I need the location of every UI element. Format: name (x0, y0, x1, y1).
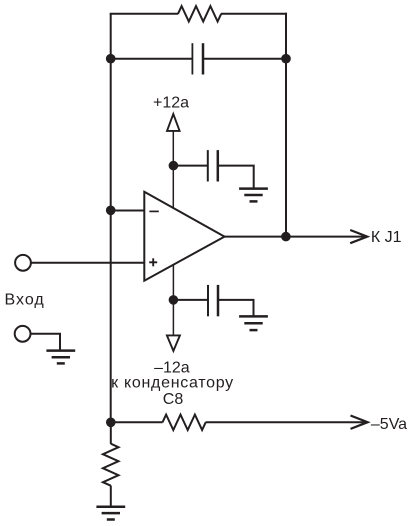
wire R3 to ground (110, 486, 112, 507)
terminal ground circle (15, 326, 31, 342)
arrow to K J1 (350, 230, 367, 243)
arrow to -5Va (351, 416, 368, 429)
ground G2 (239, 316, 268, 330)
wire to R3 (110, 422, 112, 444)
svg-text:С8: С8 (163, 391, 184, 408)
wire capacitor line right (203, 58, 286, 60)
node junction +12a (169, 161, 179, 171)
wire -5Va line right (206, 421, 365, 423)
wire to C2 (173, 165, 207, 167)
terminal input circle (15, 255, 31, 271)
wire top horizontal left segment (110, 13, 179, 15)
node junction -12a (169, 295, 179, 305)
power +12a arrow (167, 114, 180, 131)
svg-text:к конденсатору: к конденсатору (111, 375, 234, 392)
wire right vertical feedback (285, 13, 287, 237)
ground input (46, 351, 75, 364)
resistor R1 feedback (178, 6, 221, 21)
node junction bottom (106, 418, 116, 428)
svg-text:–5Va: –5Va (371, 416, 407, 433)
resistor R3 (103, 444, 119, 486)
node junction right cap (281, 54, 291, 64)
wire capacitor line left (111, 58, 193, 60)
capacitor C3 bypass bottom (207, 285, 209, 316)
svg-text:Вход: Вход (5, 291, 45, 308)
svg-text:К J1: К J1 (371, 229, 402, 246)
power -12a arrow (167, 335, 180, 351)
wire to C3 (173, 299, 208, 301)
wire left vertical bus (110, 14, 112, 423)
wire -12a supply (172, 264, 174, 335)
node junction inverting input (106, 206, 116, 216)
wire C2 to ground (218, 166, 254, 188)
op-amp plus sign (149, 261, 157, 263)
resistor R2 (163, 415, 206, 430)
wire output (224, 236, 365, 238)
wire non-inverting input (31, 262, 144, 264)
capacitor C2 bypass top (207, 150, 209, 181)
wire -5Va line (111, 421, 163, 423)
node junction output (281, 232, 291, 242)
op-amp U1 (144, 192, 224, 281)
node junction left cap (106, 54, 116, 64)
wire C3 to ground (218, 300, 254, 316)
ground G4 (96, 507, 125, 520)
op-amp minus sign (149, 210, 158, 212)
svg-text:+12a: +12a (153, 95, 189, 112)
ground G1 (239, 189, 268, 202)
wire inverting input (111, 210, 145, 212)
capacitor C1 feedback (191, 43, 193, 74)
wire +12a supply (172, 131, 174, 209)
wire top horizontal right segment (221, 13, 287, 15)
wire input ground (31, 334, 61, 351)
